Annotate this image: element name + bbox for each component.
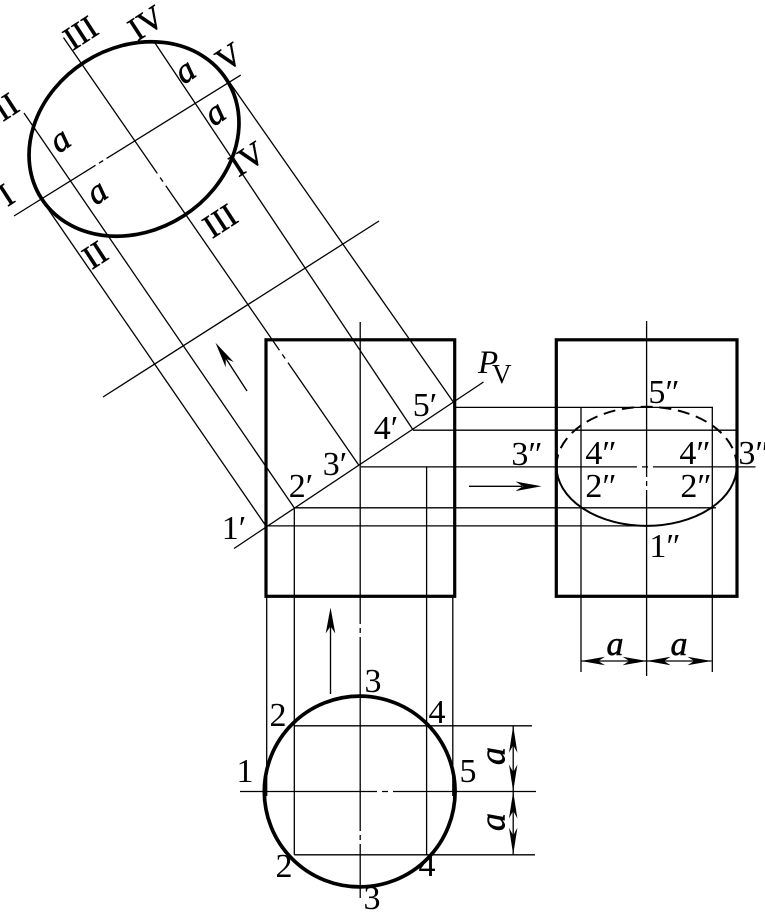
construction line right edge to point 5 bbox=[452, 596, 454, 796]
viewing-direction arrow (to side view) bbox=[469, 485, 522, 487]
svg-text:a: a bbox=[607, 626, 624, 663]
svg-text:a: a bbox=[671, 626, 688, 663]
svg-text:2′: 2′ bbox=[289, 468, 313, 505]
svg-text:a: a bbox=[473, 747, 513, 765]
cutting plane trace P_V bbox=[234, 382, 484, 549]
side view rectangle (cylinder) bbox=[556, 340, 737, 597]
svg-text:4′: 4′ bbox=[374, 410, 398, 447]
svg-text:5′: 5′ bbox=[413, 387, 437, 424]
dimension line a+a under side view bbox=[581, 660, 712, 662]
side construction line (depth a left) bbox=[580, 407, 582, 672]
viewing-direction arrow (auxiliary) bbox=[222, 352, 248, 391]
dimension line a+a right of top view bbox=[512, 726, 514, 855]
svg-text:4: 4 bbox=[429, 694, 446, 731]
svg-text:1″: 1″ bbox=[649, 528, 680, 565]
svg-text:3: 3 bbox=[365, 663, 382, 700]
svg-text:V: V bbox=[492, 359, 512, 389]
viewing-direction arrow (front to top) bbox=[330, 626, 332, 694]
chord line through points 2-4 lower bbox=[294, 854, 535, 856]
construction line through points 2 bbox=[293, 508, 295, 855]
svg-text:4″: 4″ bbox=[679, 435, 710, 472]
transfer line level 1 bbox=[266, 525, 647, 527]
top view circle bbox=[264, 696, 455, 887]
front view rectangle (cylinder) bbox=[266, 340, 455, 597]
svg-text:3″: 3″ bbox=[738, 435, 765, 472]
construction line left edge to point 1 bbox=[266, 596, 268, 796]
svg-text:2″: 2″ bbox=[585, 468, 616, 505]
projection line 2 (II to 2') bbox=[24, 113, 294, 508]
projection line 5 (V to 5') bbox=[226, 77, 454, 403]
svg-text:2: 2 bbox=[276, 848, 293, 885]
svg-text:a: a bbox=[473, 813, 513, 831]
section ellipse in side view: dashed hidden top half bbox=[556, 407, 736, 467]
side construction line (depth a right) bbox=[711, 407, 713, 672]
aux major axis line I-V (chain) bbox=[14, 73, 244, 216]
projection line 4 (IV to 4') bbox=[154, 42, 413, 430]
svg-text:4″: 4″ bbox=[585, 435, 616, 472]
svg-text:4: 4 bbox=[419, 847, 436, 884]
chord line through points 2-4 upper bbox=[294, 725, 532, 727]
svg-text:3: 3 bbox=[364, 880, 381, 914]
svg-text:5″: 5″ bbox=[648, 374, 679, 411]
construction line through points 4 bbox=[426, 467, 428, 855]
transfer line level 4 bbox=[413, 429, 737, 431]
svg-text:2: 2 bbox=[270, 697, 287, 734]
projection line 1 (I to 1') bbox=[41, 199, 266, 526]
svg-text:5: 5 bbox=[460, 753, 477, 790]
horizontal centerline of circle (chain) bbox=[240, 791, 536, 793]
section ellipse in side view: solid visible bottom half bbox=[556, 466, 736, 526]
svg-text:3′: 3′ bbox=[323, 446, 347, 483]
transfer line level 2 bbox=[294, 507, 716, 509]
auxiliary reference line bbox=[103, 221, 379, 397]
svg-text:1: 1 bbox=[237, 753, 254, 790]
side view vertical centerline (chain) bbox=[646, 321, 648, 681]
section true-shape ellipse (auxiliary view) bbox=[0, 3, 276, 276]
svg-text:2″: 2″ bbox=[680, 468, 711, 505]
transfer line level 3 / side horizontal centerline bbox=[361, 466, 756, 468]
svg-text:3″: 3″ bbox=[511, 436, 542, 473]
projection line 3 / aux centerline (chain) bbox=[64, 38, 359, 465]
vertical centerline (front+top view, chain) bbox=[359, 322, 361, 898]
transfer line level 5 bbox=[454, 406, 714, 408]
svg-text:1′: 1′ bbox=[222, 510, 246, 547]
